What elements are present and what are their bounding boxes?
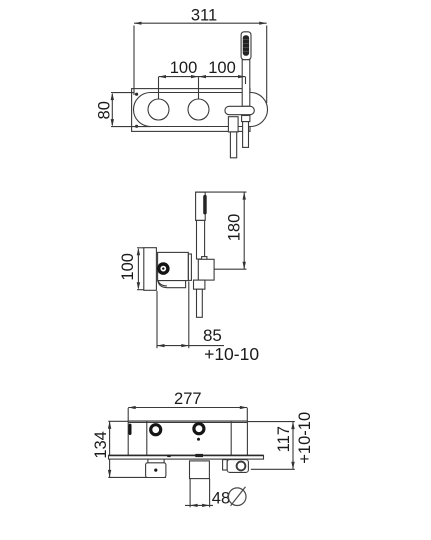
dim 311 ext right: [266, 26, 268, 104]
plate edge-on: [144, 248, 157, 291]
dim 311 line: [134, 22, 267, 24]
plan divider left: [146, 421, 148, 455]
wand head side: [196, 192, 206, 220]
dim 85 ext left: [156, 291, 158, 348]
spray slot side: [203, 195, 207, 215]
lever dot: [154, 469, 157, 472]
svg-text:+10-10: +10-10: [296, 412, 314, 464]
dim 117 line: [292, 422, 294, 470]
shower handle: [242, 60, 250, 107]
holder neck plan: [223, 460, 228, 470]
valve body side: [158, 252, 189, 280]
plan body lid edge: [128, 421, 247, 423]
dim 100 side ext: [137, 247, 144, 249]
dim 180 ext top: [196, 191, 247, 193]
plan knob1 ring: [151, 425, 161, 435]
spray face: [243, 35, 249, 56]
dim 277 line: [128, 407, 247, 409]
dim 311 ext left: [133, 26, 135, 96]
knob right: [188, 99, 209, 120]
lever box plan: [146, 463, 166, 478]
holder clip: [202, 257, 207, 260]
fitting blob: [129, 424, 132, 435]
dim 100-100 ext at knob1: [158, 77, 160, 99]
dim 85 ext right: [188, 282, 190, 349]
flange strip: [188, 254, 191, 280]
dim 100 side line: [137, 249, 139, 288]
wand handle side: [197, 220, 205, 259]
plate strip: [109, 455, 264, 459]
lever neck: [147, 459, 149, 463]
label diameter symbol: [228, 488, 246, 506]
hose collar side: [194, 280, 205, 289]
dim 100-100 line: [159, 76, 246, 78]
dim 80 line: [111, 94, 113, 125]
dim 85 line: [157, 345, 224, 347]
knob left: [148, 99, 169, 120]
knob axis ring: [159, 264, 168, 273]
holder bracket: [225, 106, 254, 114]
svg-text:80: 80: [96, 101, 114, 119]
handle lower collar: [242, 116, 250, 122]
concealed box: [132, 89, 250, 132]
handle lower tube: [243, 122, 249, 148]
svg-text:134: 134: [92, 431, 110, 459]
plan divider right: [230, 422, 232, 456]
plan body: [128, 421, 247, 455]
lever below body: [158, 281, 186, 288]
strip mark 1: [167, 455, 171, 457]
svg-text:277: 277: [174, 390, 202, 408]
dim 134 line: [109, 421, 111, 477]
svg-text:117: 117: [275, 426, 293, 452]
screw bottom-left: [135, 125, 138, 128]
svg-text:311: 311: [191, 7, 217, 25]
dim 80 ext top: [111, 92, 134, 94]
svg-text:+10-10: +10-10: [204, 344, 259, 364]
knob2 dot: [197, 438, 200, 441]
hose tube side: [197, 289, 203, 317]
dim 277 ext: [127, 408, 129, 421]
dim 134 ext bottom: [108, 476, 166, 478]
holder block side: [198, 259, 214, 280]
dim 117 ext bottom: [251, 468, 295, 470]
svg-text:100: 100: [119, 253, 137, 281]
dim 100-100 ext at shower: [245, 77, 247, 84]
svg-text:85: 85: [203, 326, 222, 345]
dim 117 ext top: [247, 421, 294, 423]
holder circle plan: [237, 462, 246, 471]
strip mark 2: [195, 454, 203, 457]
wall plate (stadium): [134, 93, 268, 127]
spout cylinder: [190, 461, 210, 479]
dim 48 ext: [189, 479, 191, 508]
plan knob2 ring: [194, 424, 204, 434]
dim 80 ext bottom: [111, 126, 151, 128]
hose outlet collar: [228, 117, 238, 132]
dim 180 ext bottom: [214, 268, 246, 270]
hand shower head: [241, 32, 251, 60]
dim 48 line: [185, 504, 213, 506]
dim 100-100 ext at knob2: [198, 77, 200, 99]
holder plan: [227, 460, 248, 473]
svg-text:100: 100: [170, 59, 198, 77]
svg-text:100: 100: [208, 59, 236, 77]
screw top-left: [135, 93, 138, 96]
hose outlet tube: [230, 132, 236, 158]
svg-text:48: 48: [212, 489, 230, 507]
svg-text:180: 180: [225, 214, 243, 242]
dim 134 ext top: [108, 420, 128, 422]
dim 180 line: [243, 192, 245, 269]
